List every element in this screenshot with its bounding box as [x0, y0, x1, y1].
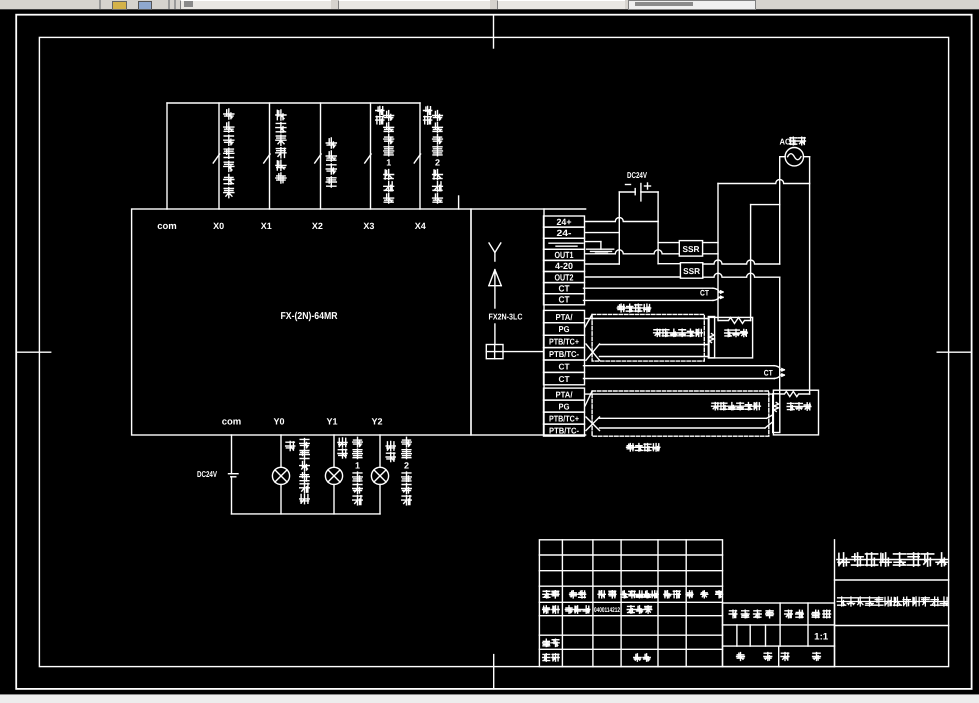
- svg-text:X2: X2: [312, 221, 323, 231]
- wire SSR1 right-bottom: [703, 253, 718, 255]
- RTD probe RT2: [773, 394, 780, 433]
- svg-text:24+: 24+: [557, 217, 572, 227]
- svg-text:4-20: 4-20: [555, 261, 573, 271]
- shield cable dashed box 1: [592, 314, 704, 361]
- tb label nianyueri: [686, 591, 723, 598]
- wire vertical 809: [809, 157, 811, 394]
- tb subtable vline scale: [807, 603, 809, 646]
- wire AC left branch: [751, 204, 780, 206]
- label lamp3 shideng: [386, 441, 395, 461]
- tb label shenhe: [543, 639, 560, 646]
- centering mark right: [937, 351, 971, 353]
- tb small cell line 736.9: [736, 625, 738, 646]
- wire SSR1 right-top: [703, 242, 718, 244]
- wire vertical 750: [750, 205, 752, 321]
- wire vertical 718: [717, 184, 719, 321]
- switch contact S-X4: [414, 154, 420, 163]
- tb subtable hline1: [723, 624, 835, 626]
- svg-text:X0: X0: [213, 221, 224, 231]
- tb label biaoji: [543, 591, 559, 598]
- svg-text:2: 2: [404, 461, 409, 471]
- titleblock hline 602.3: [539, 601, 722, 603]
- tb university name: [837, 553, 948, 566]
- tb label gongyi: [543, 654, 560, 661]
- titleblock vline 621.1: [620, 540, 622, 667]
- titleblock vline 686.2: [685, 540, 687, 667]
- wire 4-20 to node-A: [586, 263, 620, 265]
- wire cross X1a: [586, 344, 600, 360]
- relay SSR2 box: [680, 263, 702, 279]
- lamp HL2: [325, 467, 342, 484]
- wire arrow stem lower: [494, 324, 496, 345]
- RTD probe RT1: [708, 317, 714, 358]
- relay SSR1 box: [679, 241, 702, 257]
- tb title vline: [834, 540, 836, 667]
- battery BT1 plus sign: [645, 185, 651, 187]
- wire HL1 upper: [280, 435, 282, 467]
- titleblock hline 586.2: [539, 585, 722, 587]
- wire SSR2 right-top: [703, 260, 780, 264]
- label tiaojie-1: [376, 106, 384, 124]
- heater EH2 box: [773, 390, 818, 435]
- svg-text:1: 1: [386, 158, 391, 168]
- wire lamp bus: [232, 513, 381, 515]
- terminal block1 cell 24+: [544, 216, 585, 227]
- svg-text:X4: X4: [415, 221, 426, 231]
- wire battery minus lead: [619, 191, 635, 193]
- svg-text:CT: CT: [559, 294, 570, 304]
- tb name liyuhang: [565, 606, 590, 613]
- wire HL3 upper: [379, 435, 381, 467]
- wire TC- ch2: [600, 427, 766, 429]
- tb label qianming: [664, 591, 681, 598]
- label qidong-tongdao-1: [384, 111, 394, 203]
- tb small cell line 750.2: [749, 625, 751, 646]
- svg-text:PG: PG: [559, 401, 570, 411]
- heater EH2 element: [780, 391, 810, 396]
- terminal block1 cell OUT2: [544, 272, 585, 283]
- stub above PLC right corner: [458, 196, 460, 209]
- svg-text:PTB/TC-: PTB/TC-: [549, 349, 579, 359]
- svg-text:0400114212: 0400114212: [594, 607, 620, 614]
- wire CT2b: [584, 378, 775, 380]
- heater EH1 element: [719, 318, 751, 324]
- svg-text:24-: 24-: [557, 228, 572, 238]
- wire com input: [166, 103, 168, 209]
- switch contact S-X1: [264, 154, 270, 163]
- label jiareball-1: [725, 329, 748, 336]
- svg-text:1:1: 1:1: [814, 632, 829, 643]
- wire AC right lead: [804, 156, 810, 158]
- label pingbi-dianlan-1: [617, 304, 650, 311]
- svg-text:FX2N-3LC: FX2N-3LC: [489, 312, 523, 322]
- svg-text:CT: CT: [559, 361, 571, 371]
- tb subtable vline sheets: [778, 646, 780, 667]
- wire X0 input: [218, 103, 220, 209]
- label jiareball-2: [787, 403, 811, 410]
- label lamp1 text: [300, 439, 310, 504]
- tb subtable vline weight: [779, 603, 781, 646]
- switch contact S-X2: [315, 154, 321, 163]
- tb label gong-zhang: [737, 653, 745, 661]
- svg-text:PTB/TC+: PTB/TC+: [549, 413, 579, 423]
- wire TC- ch1: [600, 356, 709, 358]
- label lamp2 shideng: [338, 438, 347, 458]
- terminal block1 cell 24-: [544, 227, 585, 238]
- terminal block3 cell PTB/TC-: [544, 424, 585, 436]
- svg-text:com: com: [222, 417, 242, 428]
- tb subtable outline: [723, 603, 835, 667]
- svg-text:Y0: Y0: [273, 417, 284, 427]
- wire node-A vertical 619: [618, 192, 620, 264]
- terminal block2 cell CT: [544, 372, 585, 384]
- label lamp3 text: [402, 437, 412, 505]
- titleblock vline 592.9: [592, 540, 594, 667]
- wire AC top link: [718, 180, 810, 184]
- battery BT1 short plate: [634, 189, 636, 195]
- tb title hline1: [835, 579, 949, 581]
- wire TC+ ch1: [600, 344, 709, 346]
- terminal block2 cell PTA/: [544, 310, 585, 322]
- svg-text:PTA/: PTA/: [556, 312, 574, 322]
- terminal block1 cell FG-sym: [544, 238, 585, 249]
- tb label sheji: [543, 606, 560, 613]
- tb label genggai: [621, 591, 658, 598]
- arrow symbol: [489, 270, 502, 286]
- wire HL1 lower: [280, 485, 282, 514]
- wire vertical 779 lower: [779, 277, 781, 394]
- wire CT1b: [584, 299, 714, 301]
- titleblock hline 615.7: [539, 615, 722, 617]
- wire X2 input: [320, 103, 322, 209]
- svg-text:SSR: SSR: [683, 244, 700, 254]
- terminal block3 cell PTA/: [544, 388, 585, 400]
- battery BT2 short plate: [231, 476, 236, 478]
- label pingbi-dianlan-2: [627, 444, 660, 451]
- wire SSR1 left-top: [658, 242, 679, 244]
- wire top bus: [167, 102, 420, 104]
- svg-text:OUT2: OUT2: [555, 272, 574, 282]
- wire 24- to node-A: [586, 232, 620, 234]
- svg-text:FX-(2N)-64MR: FX-(2N)-64MR: [281, 311, 339, 322]
- svg-text:DC24V: DC24V: [627, 170, 647, 180]
- terminal block2 cell CT: [544, 360, 585, 372]
- battery BT2 long plate: [229, 473, 239, 475]
- svg-text:CT: CT: [700, 288, 709, 297]
- wire PTA ch2: [586, 393, 773, 395]
- module U2 top edge extension: [544, 208, 586, 210]
- wire cross X2a: [586, 417, 600, 431]
- battery BT1 long plate: [640, 184, 642, 201]
- label qidong-mokuai-chushihua: [224, 109, 234, 198]
- svg-text:OUT1: OUT1: [555, 250, 574, 260]
- wire com-Y vertical lower: [231, 477, 233, 514]
- wire X3 input: [370, 103, 372, 209]
- svg-text:1: 1: [355, 461, 360, 471]
- titleblock hline 555.0: [539, 554, 722, 556]
- tb label biaozhunhua: [627, 606, 652, 613]
- svg-text:PTB/TC-: PTB/TC-: [549, 425, 579, 435]
- wire cross X1b: [586, 344, 600, 360]
- wire TC+ ch2: [600, 417, 767, 419]
- svg-text:X1: X1: [261, 221, 272, 231]
- wire X1 input: [269, 103, 271, 209]
- svg-text:CT: CT: [764, 369, 773, 378]
- label qidong-mokuai: [326, 138, 336, 187]
- wire arrow stem upper: [494, 286, 496, 308]
- label qidong-tongdao-2: [433, 111, 443, 203]
- module U2 box FX2N-3LC: [471, 209, 544, 435]
- wire CT2a: [584, 365, 775, 367]
- svg-text:CT: CT: [559, 374, 571, 384]
- terminal block1 cell CT: [544, 294, 585, 305]
- wire OUT1 to SSR1: [586, 250, 680, 254]
- svg-text:CT: CT: [559, 283, 570, 293]
- wire X4 input: [419, 103, 421, 209]
- wire 24+ to node-B: [586, 218, 659, 222]
- titleblock hline 635.2: [539, 634, 722, 636]
- shield cable dashed box 2: [592, 391, 769, 436]
- wire SSR2 left-top: [658, 263, 680, 265]
- label bodianzu-wenduji-1: [654, 329, 703, 336]
- lamp HL1: [272, 467, 289, 484]
- centering mark bottom: [493, 655, 495, 689]
- tb label di-zhang: [781, 653, 789, 661]
- titleblock vline 658.0: [657, 540, 659, 667]
- tb small cell line 765.5: [765, 625, 767, 646]
- wire vertical 779 upper: [779, 157, 781, 264]
- ground symbol G1: [587, 249, 614, 253]
- titleblock outline: [539, 540, 722, 667]
- wire PG diag ch2: [585, 391, 592, 406]
- centering mark left: [16, 351, 51, 353]
- wire HL3 lower: [379, 485, 381, 514]
- svg-text:X3: X3: [363, 221, 374, 231]
- svg-text:PTB/TC+: PTB/TC+: [549, 337, 579, 347]
- CT2 clamp arrows: [780, 369, 784, 377]
- label jinxing-cuowu-fuwei: [276, 110, 286, 183]
- wire HL2 upper: [333, 435, 335, 467]
- terminal block2 cell PG: [544, 323, 585, 335]
- terminal block1 cell OUT1: [544, 249, 585, 260]
- tb label fenqu: [598, 591, 616, 598]
- wire battery plus lead: [641, 191, 658, 193]
- svg-text:Y1: Y1: [326, 417, 337, 427]
- AC source G2 circle: [785, 148, 803, 166]
- sensor junction square: [486, 345, 503, 359]
- wire HL2 lower: [333, 485, 335, 514]
- tb drawing title: [837, 597, 948, 606]
- svg-text:2: 2: [435, 158, 440, 168]
- heater EH1 box: [709, 317, 753, 358]
- wire SSR2 right-bottom: [703, 273, 780, 277]
- wire FG row stub: [586, 241, 601, 243]
- svg-text:DC24V: DC24V: [197, 469, 217, 479]
- wire cross X2b: [586, 417, 600, 431]
- label bodianzu-wenduji-2: [712, 403, 761, 410]
- tb label chushu: [570, 591, 586, 598]
- terminal block1 cell 4-20: [544, 260, 585, 271]
- block1 FG symbol in cell: [549, 243, 583, 246]
- wire AC left lead: [780, 156, 785, 158]
- wire OUT2 to SSR2: [586, 276, 681, 278]
- tb subtable hline2: [723, 645, 835, 647]
- wire PG diag ch1: [585, 314, 592, 327]
- svg-text:SSR: SSR: [683, 266, 700, 276]
- tb label zhongliang: [785, 610, 804, 618]
- wire square to terminals: [503, 351, 544, 353]
- CT1 clamp arrows: [719, 291, 723, 299]
- svg-text:PG: PG: [559, 324, 570, 334]
- svg-text:PTA/: PTA/: [556, 389, 574, 399]
- centering mark top: [493, 15, 495, 48]
- tb label jieduanbiaoji: [729, 610, 773, 618]
- lamp HL3: [371, 467, 388, 484]
- label lamp2 text: [353, 437, 363, 505]
- titleblock hline 570.7: [539, 570, 722, 572]
- wire com-Y vertical upper: [231, 435, 233, 474]
- svg-text:com: com: [157, 221, 177, 232]
- terminal block2 cell PTB/TC-: [544, 348, 585, 360]
- terminal block3 cell PG: [544, 400, 585, 412]
- battery BT1 minus sign: [626, 184, 631, 186]
- tb label bili: [812, 610, 831, 618]
- antenna Y symbol: [489, 243, 501, 261]
- titleblock vline 562.4: [561, 540, 563, 667]
- label tiaojie-2: [424, 106, 432, 124]
- switch contact S-X0: [213, 154, 219, 163]
- tb label pizhun: [634, 654, 651, 661]
- svg-text:Y2: Y2: [371, 417, 382, 427]
- wire CT1a: [584, 287, 714, 289]
- PLC U1 box FX-(2N)-64MR: [132, 209, 471, 435]
- label lamp1 deng: [286, 441, 295, 450]
- svg-text:AC: AC: [780, 137, 791, 147]
- module U2 bottom edge extension: [544, 434, 586, 436]
- wire node-B vertical 658: [657, 192, 659, 264]
- terminal block3 cell PTB/TC+: [544, 412, 585, 424]
- switch contact S-X3: [365, 154, 371, 163]
- wire PTA ch1: [586, 318, 709, 320]
- titleblock hline 649.3: [539, 648, 722, 650]
- terminal block2 cell PTB/TC+: [544, 335, 585, 347]
- tb title hline2: [835, 625, 949, 627]
- terminal block1 cell CT: [544, 283, 585, 294]
